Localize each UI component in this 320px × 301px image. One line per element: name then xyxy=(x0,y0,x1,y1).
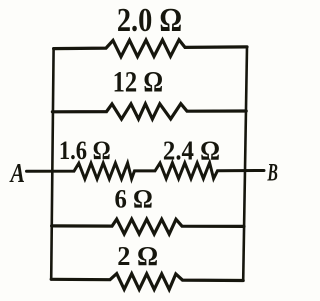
svg-text:12 Ω: 12 Ω xyxy=(113,65,163,98)
svg-text:2 Ω: 2 Ω xyxy=(117,241,158,272)
svg-text:2.0 Ω: 2.0 Ω xyxy=(117,1,182,39)
node B vertical bus (right) xyxy=(243,47,247,281)
node A vertical bus (left) xyxy=(51,49,53,280)
svg-text:A: A xyxy=(9,159,25,189)
svg-text:1.6 Ω: 1.6 Ω xyxy=(59,136,111,165)
resistor R6 2 ohm branch wire+zigzag xyxy=(51,274,243,290)
resistor R2 12 ohm branch wire+zigzag xyxy=(52,104,246,119)
svg-text:B: B xyxy=(267,157,278,186)
svg-text:6 Ω: 6 Ω xyxy=(114,185,152,214)
resistor R1 2.0 ohm branch wire+zigzag xyxy=(54,40,247,57)
svg-text:2.4 Ω: 2.4 Ω xyxy=(163,136,220,166)
wire from terminal A with resistors R3 1.6 ohm and R4 2.4 ohm xyxy=(27,163,265,179)
resistor R5 6 ohm branch wire+zigzag xyxy=(52,219,244,234)
